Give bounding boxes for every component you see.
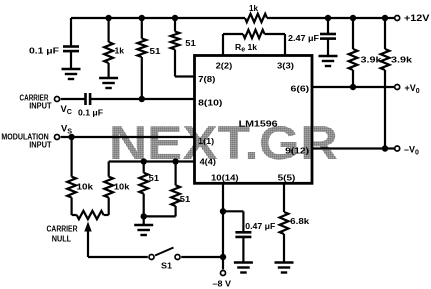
terminal -8V: [221, 271, 226, 276]
resistor 3.9k load a: [352, 18, 354, 49]
resistor 3.9k load b: [384, 18, 386, 49]
wire carrier cap to pin 8(10): [91, 98, 195, 100]
svg-text:10(14): 10(14): [211, 173, 239, 183]
wire cap branch: [223, 210, 243, 212]
ground (0.47uF): [234, 261, 253, 263]
svg-text:S1: S1: [161, 261, 172, 271]
svg-text:51: 51: [150, 46, 161, 56]
svg-text:NULL: NULL: [52, 234, 71, 244]
svg-text:2.47 μF: 2.47 μF: [288, 33, 319, 43]
terminal +12V: [395, 16, 400, 21]
svg-text:CARRIER: CARRIER: [47, 223, 79, 233]
node rail-3.9k-b: [382, 15, 388, 21]
svg-text:1k: 1k: [249, 3, 258, 13]
wire 51b to pin 7(8): [175, 75, 195, 77]
svg-text:LM1596: LM1596: [239, 120, 279, 129]
resistor 51 pin7 bias: [174, 18, 176, 32]
node rail-1k: [105, 15, 111, 21]
wire switch to -8V node: [181, 256, 223, 258]
svg-text:3(3): 3(3): [277, 60, 294, 70]
svg-text:0.1 μF: 0.1 μF: [29, 46, 59, 56]
svg-text:1(1): 1(1): [198, 136, 214, 146]
capacitor 0.1uF carrier coupling: [84, 93, 87, 105]
svg-text:0.47 μF: 0.47 μF: [245, 221, 275, 231]
node rail-3.9k-a: [350, 15, 356, 21]
resistor 51 carrier bias: [141, 18, 143, 39]
svg-text:2(2): 2(2): [216, 60, 233, 70]
wire carrier terminal to cap: [61, 98, 85, 100]
switch S1 pole: [149, 255, 154, 260]
svg-text:51: 51: [185, 38, 196, 48]
node 4(4)-51c: [141, 158, 147, 164]
wire pin 6(6) to +V0: [312, 86, 394, 88]
svg-text:4(4): 4(4): [200, 157, 216, 167]
wiper arrow carrier null: [84, 222, 91, 232]
svg-text:7(8): 7(8): [198, 74, 215, 84]
svg-text:3.9k: 3.9k: [391, 55, 412, 65]
resistor 10k b: [108, 162, 110, 177]
wire pin 4(4) line: [109, 160, 195, 162]
terminal +V0: [395, 85, 400, 90]
svg-text:1k: 1k: [115, 46, 125, 56]
wire modulation to pin 1(1): [61, 136, 195, 138]
capacitor 0.47uF: [235, 231, 251, 234]
node -8V-cap: [220, 208, 226, 214]
ground (0.1uF bypass): [62, 68, 81, 70]
switch S1 throw: [175, 255, 180, 260]
node +V0-3.9k: [350, 84, 356, 90]
node carrier-51a: [139, 96, 145, 102]
node rail-51a: [139, 15, 145, 21]
node 4(4)-51d: [172, 158, 178, 164]
node -8V-switch: [220, 254, 226, 260]
wire pin2 stub: [222, 34, 224, 56]
svg-text:3.9k: 3.9k: [361, 55, 382, 65]
terminal modulation input: [55, 135, 60, 140]
node rail-51b: [172, 15, 178, 21]
resistor 1k bias: [107, 18, 109, 42]
wire wiper to switch: [88, 256, 148, 258]
svg-text:10k: 10k: [77, 182, 94, 192]
resistor 51 d: [175, 162, 177, 186]
op-amp/IC U1 LM1596 box: [195, 56, 313, 184]
node 51c-51d: [141, 213, 147, 219]
potentiometer carrier null: [72, 214, 77, 216]
switch S1 lever: [155, 248, 174, 256]
svg-text:INPUT: INPUT: [29, 140, 52, 150]
wire top supply rail left of 1k: [71, 17, 245, 19]
svg-text:Re 1k: Re 1k: [235, 42, 257, 54]
wire 51d to 51c bottom: [144, 215, 176, 217]
svg-text:8(10): 8(10): [198, 98, 222, 108]
resistor 10k a: [70, 137, 72, 177]
ground (1k bias): [99, 77, 118, 79]
node rail-2.47uF: [325, 15, 331, 21]
node modulation-10k: [68, 134, 74, 140]
ground (6.8k): [275, 261, 294, 263]
terminal carrier input: [55, 97, 60, 102]
terminal -V0: [395, 146, 400, 151]
svg-text:6.8k: 6.8k: [290, 216, 309, 226]
wire pin3 stub: [284, 34, 286, 56]
svg-text:9(12): 9(12): [285, 146, 309, 156]
ground (2.47uF): [319, 55, 338, 57]
capacitor 0.1uF supply bypass: [70, 18, 72, 46]
resistor 1k series in +12V rail: [245, 14, 267, 22]
svg-text:5(5): 5(5): [278, 173, 296, 183]
svg-text:INPUT: INPUT: [29, 101, 52, 111]
svg-text:–8 V: –8 V: [213, 279, 232, 289]
resistor Re 1k: [223, 33, 243, 35]
capacitor 2.47uF: [327, 18, 329, 34]
svg-text:51: 51: [149, 173, 160, 183]
resistor 6.8k: [283, 183, 285, 212]
svg-text:6(6): 6(6): [291, 84, 310, 94]
svg-text:0.1 μF: 0.1 μF: [78, 108, 103, 118]
wire pin 9(12) to -V0: [312, 147, 394, 149]
wire top supply rail right of 1k: [267, 17, 395, 19]
svg-text:51: 51: [180, 194, 191, 204]
svg-text:+12V: +12V: [404, 13, 430, 23]
svg-text:10k: 10k: [114, 182, 130, 192]
wire pin 10(14) to -8V terminal: [222, 183, 224, 269]
ground (51 pair): [134, 224, 153, 226]
node -V0-3.9k: [382, 145, 388, 151]
resistor 51 c: [143, 162, 145, 173]
